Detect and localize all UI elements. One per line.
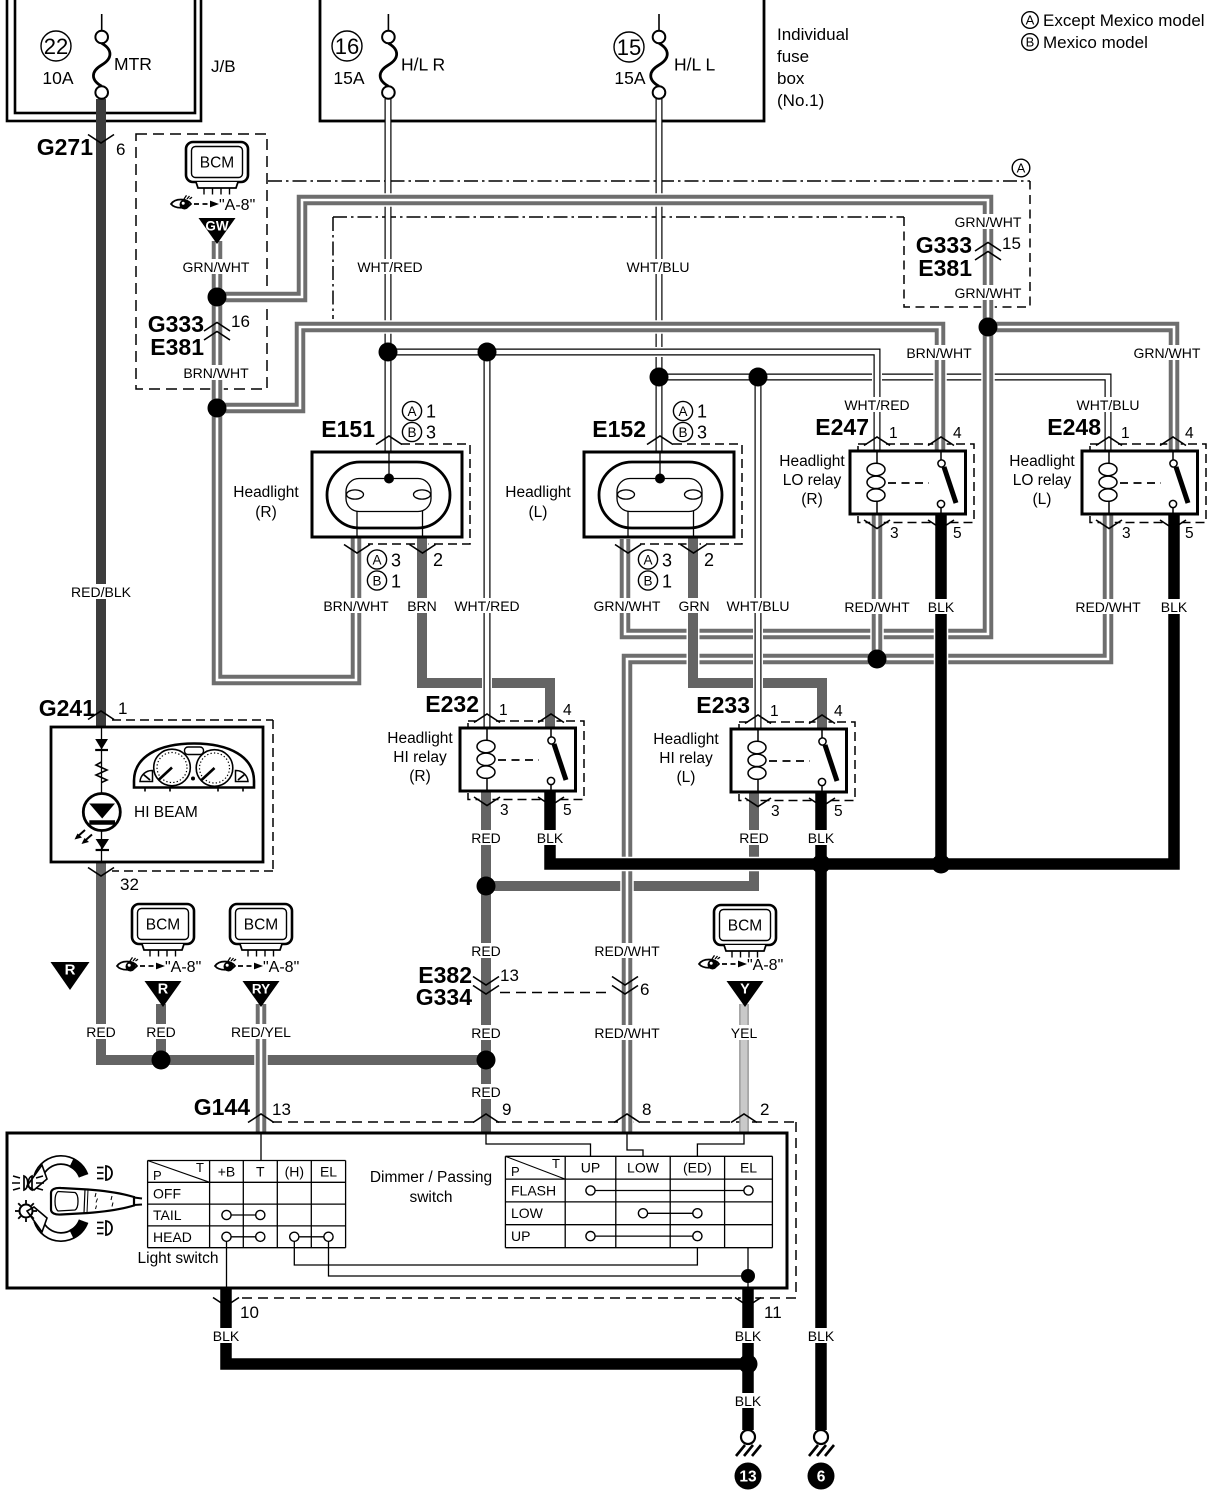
label RED/WHT under E247 <box>844 599 910 615</box>
svg-text:B: B <box>643 573 652 588</box>
svg-text:4: 4 <box>834 703 843 720</box>
svg-text:(H): (H) <box>285 1164 304 1180</box>
label J/B <box>211 57 236 76</box>
light switch assembly box <box>7 1133 787 1288</box>
label BRN under E151 <box>407 598 437 614</box>
svg-text:13: 13 <box>272 1100 291 1119</box>
connector E382/G334 pin 6 <box>612 977 649 1000</box>
svg-text:Headlight: Headlight <box>387 730 453 747</box>
svg-text:2: 2 <box>433 550 443 570</box>
svg-text:10A: 10A <box>42 68 73 88</box>
svg-text:3: 3 <box>391 551 401 571</box>
svg-text:WHT/BLU: WHT/BLU <box>627 259 690 275</box>
svg-text:RED/WHT: RED/WHT <box>594 943 660 959</box>
connector G333/E381 dashed box (right) <box>904 181 1030 307</box>
BCM RY reference A-8 eye <box>215 957 299 976</box>
svg-text:BLK: BLK <box>537 830 564 846</box>
label GRN under E152 <box>678 598 709 614</box>
svg-text:3: 3 <box>662 551 672 571</box>
G241 instrument cluster box <box>51 727 263 862</box>
svg-text:6: 6 <box>116 140 125 159</box>
relay E233 pin 5 <box>809 798 843 820</box>
connector G333/E381 pin 15 <box>916 232 1021 281</box>
label A circle on dash-dot box <box>1012 159 1030 177</box>
label RED/BLK <box>71 584 132 600</box>
svg-text:G334: G334 <box>416 984 472 1010</box>
light switch dashed connector box <box>238 1122 796 1298</box>
svg-text:HEAD: HEAD <box>153 1229 192 1245</box>
relay E233 title <box>653 731 719 786</box>
junction BRN/WHT below G333/E381 <box>208 399 227 418</box>
svg-text:8: 8 <box>642 1100 651 1119</box>
svg-text:B: B <box>372 573 381 588</box>
svg-text:16: 16 <box>231 312 250 331</box>
svg-text:EL: EL <box>320 1164 337 1180</box>
svg-text:BLK: BLK <box>735 1328 762 1344</box>
label WHT/RED fuse wire <box>357 259 422 275</box>
wire GRN/WHT from BCM gateway GW down <box>210 241 224 408</box>
legend B Mexico model <box>1022 33 1148 52</box>
label RED below E382 connector <box>471 1025 501 1041</box>
svg-text:R: R <box>65 962 76 979</box>
svg-text:GRN/WHT: GRN/WHT <box>955 285 1022 301</box>
wire RED from relay E232 pin 3 down through E382/G334 pin 13 to switch pin 9 <box>480 791 493 1133</box>
individual fuse box No.1 <box>320 0 764 121</box>
junction RED at relay E232 pin 3 <box>477 877 496 896</box>
svg-text:A: A <box>1017 161 1026 176</box>
label GRN/WHT below G333/E381 right <box>955 285 1022 301</box>
label WHT/BLU at E248 pin 1 <box>1077 397 1140 413</box>
relay E248 dashed connector box <box>1090 444 1206 523</box>
svg-text:Mexico model: Mexico model <box>1043 33 1148 52</box>
relay E232 pin 3 <box>474 797 509 819</box>
dimmer switch contact table <box>505 1156 772 1247</box>
triangle Y <box>727 981 764 1007</box>
svg-text:(ED): (ED) <box>683 1160 712 1176</box>
svg-text:4: 4 <box>563 702 572 719</box>
relay E232 title <box>387 730 453 785</box>
svg-text:WHT/RED: WHT/RED <box>454 598 519 614</box>
svg-text:E248: E248 <box>1047 414 1101 440</box>
svg-text:BLK: BLK <box>213 1328 240 1344</box>
junction RED at BCM R wire <box>152 1051 171 1070</box>
svg-text:E381: E381 <box>918 255 972 281</box>
svg-text:15A: 15A <box>333 68 364 88</box>
svg-text:5: 5 <box>563 802 572 819</box>
wire RED/WHT from relay E247 pin 3 to junction <box>870 515 884 659</box>
junction BLK at dimmer pin 11 wire <box>739 1355 758 1374</box>
svg-text:(R): (R) <box>801 491 823 508</box>
svg-text:A: A <box>372 552 381 567</box>
wire GRN from headlight E152 pin 2 to relay E233 pin 4 <box>693 537 822 729</box>
label individual fuse box <box>777 25 849 110</box>
label BLK ground 6 wire <box>808 1328 835 1344</box>
svg-text:3: 3 <box>890 525 899 542</box>
wire RED/WHT from relays E247/E248 pin 3 down through E382/G334 pin 6 to switch pin 8 <box>627 515 1108 1133</box>
svg-text:FLASH: FLASH <box>511 1182 556 1198</box>
svg-text:BCM: BCM <box>728 918 762 935</box>
svg-text:RED: RED <box>739 830 769 846</box>
svg-text:Y: Y <box>740 982 750 998</box>
svg-text:UP: UP <box>511 1228 530 1244</box>
switch pin 2 <box>731 1100 769 1123</box>
svg-text:2: 2 <box>760 1100 769 1119</box>
svg-text:E247: E247 <box>815 414 869 440</box>
svg-text:HI relay: HI relay <box>393 749 447 766</box>
wire GRN/WHT from BCM junction via G333/E381 pin 15 <box>217 200 988 327</box>
svg-text:HI BEAM: HI BEAM <box>134 804 198 821</box>
svg-text:16: 16 <box>335 34 359 59</box>
wire BRN/WHT from junction to relay E247 pin 4 <box>217 327 940 451</box>
BCM module R <box>132 904 194 957</box>
label GRN/WHT above G333/E381 right <box>955 214 1022 230</box>
svg-text:RED: RED <box>471 1025 501 1041</box>
svg-text:(R): (R) <box>255 504 277 521</box>
svg-text:A: A <box>1026 13 1035 28</box>
G241 connector pin 1 <box>39 695 128 721</box>
instrument cluster gauge icon <box>134 744 254 792</box>
svg-text:3: 3 <box>697 423 707 443</box>
switch pin 10 <box>213 1298 259 1323</box>
label Headlight (L) <box>505 484 571 521</box>
svg-text:H/L L: H/L L <box>674 55 715 75</box>
svg-text:BLK: BLK <box>808 1328 835 1344</box>
relay E232 pin 5 <box>538 797 572 819</box>
relay E248 label <box>1047 414 1101 440</box>
svg-text:10: 10 <box>240 1303 259 1322</box>
BCM R reference A-8 eye <box>117 957 201 976</box>
svg-text:1: 1 <box>426 402 436 422</box>
svg-text:3: 3 <box>771 803 780 820</box>
wire GRN/WHT from junction to relay E248 pin 4 <box>988 327 1174 451</box>
svg-text:GRN/WHT: GRN/WHT <box>183 259 250 275</box>
wire YEL from BCM Y triangle to switch pin 2 <box>739 1004 749 1133</box>
relay E233 pin 1 <box>745 703 779 724</box>
svg-text:1: 1 <box>391 572 401 592</box>
svg-text:6: 6 <box>640 980 649 999</box>
svg-text:BRN/WHT: BRN/WHT <box>183 365 249 381</box>
svg-text:1: 1 <box>662 572 672 592</box>
svg-text:(No.1): (No.1) <box>777 91 824 110</box>
svg-text:Individual: Individual <box>777 25 849 44</box>
label GRN/WHT at GW wire <box>183 259 250 275</box>
label HI BEAM <box>134 804 198 821</box>
svg-text:A: A <box>407 404 416 419</box>
wire RED from relay E233 pin 3 to junction <box>486 791 754 886</box>
svg-text:P: P <box>511 1164 520 1179</box>
svg-text:P: P <box>153 1168 162 1183</box>
wire RED from BCM R triangle to bus <box>155 1004 168 1060</box>
BCM Y reference A-8 eye <box>699 955 783 974</box>
relay E247 pin 3 <box>864 520 899 542</box>
svg-text:LO relay: LO relay <box>1013 472 1072 489</box>
svg-text:RED/WHT: RED/WHT <box>594 1025 660 1041</box>
svg-text:(L): (L) <box>677 769 696 786</box>
svg-text:T: T <box>552 1156 560 1171</box>
relay E233 pin 4 <box>809 703 843 724</box>
relay E247 <box>850 451 966 514</box>
label BLK pin 10 <box>213 1328 240 1344</box>
wire WHT/BLU branch to relay E248 pin 1 <box>659 377 1108 451</box>
dimmer table headers <box>511 1156 757 1244</box>
connector G144 pin 13 <box>194 1094 291 1123</box>
wire RED from G241 pin 32 along bus to junction <box>101 862 486 1060</box>
BCM reference A-8 eye <box>171 195 255 214</box>
label BLK under E233 <box>808 830 835 846</box>
light switch TAIL contacts <box>222 1210 265 1219</box>
svg-text:6: 6 <box>817 1469 826 1486</box>
label RED/WHT under E248 <box>1075 599 1141 615</box>
wire BLK relay E247 pin 5 to ground bus <box>934 515 949 864</box>
relay E232 <box>460 728 576 791</box>
relay E247 pin 4 <box>928 425 962 446</box>
svg-text:BLK: BLK <box>735 1393 762 1409</box>
wire BLK relay E233 pin 5 down to ground 6 <box>814 792 829 1430</box>
label BLK below junction <box>735 1393 762 1409</box>
relay E247 label <box>815 414 869 440</box>
junction BLK at relay E233 pin 5 <box>812 855 831 874</box>
relay E247 pin 1 <box>864 425 898 446</box>
svg-text:1: 1 <box>1121 425 1130 442</box>
label BLK under E248 <box>1161 599 1188 615</box>
junction WHT/RED at E232 branch <box>478 343 497 362</box>
svg-text:(R): (R) <box>409 768 431 785</box>
svg-text:G144: G144 <box>194 1094 250 1120</box>
svg-text:RED/BLK: RED/BLK <box>71 584 132 600</box>
headlight E151 top pin A1/B3 <box>376 401 436 444</box>
fuse 22 10A MTR <box>41 14 152 99</box>
junction WHT/BLU at fuse branch <box>650 368 669 387</box>
svg-text:15A: 15A <box>614 68 645 88</box>
G241 dashed connector box <box>112 720 273 871</box>
svg-text:5: 5 <box>953 525 962 542</box>
wire WHT/BLU from fuse 15 down to headlight E152 pin A1/B3 <box>656 99 663 452</box>
svg-text:BRN/WHT: BRN/WHT <box>906 345 972 361</box>
triangle RY <box>243 981 280 1007</box>
svg-text:4: 4 <box>953 425 962 442</box>
svg-text:BCM: BCM <box>244 917 278 934</box>
switch pin 11 <box>735 1298 782 1323</box>
label BRN/WHT below G333/E381 <box>183 365 249 381</box>
svg-text:J/B: J/B <box>211 57 236 76</box>
wire BLK ground bus from relay E232 pin 5 to relay E248 pin 5 <box>550 515 1174 864</box>
relay E233 dashed connector box <box>739 722 855 801</box>
svg-text:3: 3 <box>500 802 509 819</box>
label RED on BCM R wire <box>146 1024 176 1040</box>
svg-text:5: 5 <box>834 803 843 820</box>
relay E248 pin 5 <box>1160 520 1194 542</box>
label GRN/WHT under E152 <box>594 598 661 614</box>
svg-text:LOW: LOW <box>511 1205 544 1221</box>
model-A region dash-dot boundary <box>268 181 1030 319</box>
svg-text:3: 3 <box>426 423 436 443</box>
svg-text:HI relay: HI relay <box>659 750 713 767</box>
svg-text:Headlight: Headlight <box>1009 453 1075 470</box>
gateway triangle GW <box>199 218 236 244</box>
junction RED/WHT at relay E247 pin 3 <box>868 650 887 669</box>
svg-text:WHT/BLU: WHT/BLU <box>1077 397 1140 413</box>
headlight E152 bottom pin A3/B1 <box>615 545 672 592</box>
BCM module top <box>186 142 248 195</box>
svg-text:LOW: LOW <box>627 1160 660 1176</box>
junction WHT/BLU at E233 branch <box>749 368 768 387</box>
label RED/WHT above E382 connector <box>594 943 660 959</box>
svg-text:Light switch: Light switch <box>138 1250 219 1267</box>
svg-text:box: box <box>777 69 805 88</box>
svg-text:G271: G271 <box>37 134 93 160</box>
label WHT/BLU fuse wire <box>627 259 690 275</box>
label RED under E233 <box>739 830 769 846</box>
svg-text:5: 5 <box>1185 525 1194 542</box>
label Dimmer / Passing switch <box>370 1169 492 1206</box>
relay E232 label <box>425 691 479 717</box>
svg-text:Headlight: Headlight <box>653 731 719 748</box>
label BRN/WHT under E151 <box>323 598 389 614</box>
switch internal wiring <box>227 1133 749 1288</box>
light switch stalk icon <box>27 1160 142 1237</box>
svg-text:Headlight: Headlight <box>779 453 845 470</box>
junction WHT/RED at fuse branch <box>379 343 398 362</box>
junction inside switch <box>741 1269 755 1283</box>
headlight E151 bottom pin 2 <box>410 545 444 571</box>
svg-text:B: B <box>407 425 416 440</box>
label BLK pin 11 <box>735 1328 762 1344</box>
headlight E151 bottom pin A3/B1 <box>344 545 401 592</box>
headlight E152 bottom pin 2 <box>681 545 715 571</box>
svg-text:13: 13 <box>739 1469 757 1486</box>
junction GRN/WHT below G333/E381 right <box>979 318 998 337</box>
svg-text:GRN/WHT: GRN/WHT <box>955 214 1022 230</box>
svg-text:Headlight: Headlight <box>233 484 299 501</box>
svg-text:4: 4 <box>1185 425 1194 442</box>
wire BRN from headlight E151 pin 2 to relay E232 pin 4 <box>422 537 550 728</box>
relay E248 pin 3 <box>1096 520 1131 542</box>
svg-text:11: 11 <box>764 1303 782 1322</box>
svg-text:GRN/WHT: GRN/WHT <box>594 598 661 614</box>
svg-text:E381: E381 <box>150 334 204 360</box>
wire BLK dimmer switch pin 11 down to ground 13 <box>741 1288 756 1430</box>
svg-text:+B: +B <box>218 1164 236 1180</box>
svg-text:RED/WHT: RED/WHT <box>1075 599 1141 615</box>
svg-text:E152: E152 <box>592 416 646 442</box>
label RED above switch pin 9 <box>471 1084 501 1100</box>
diode D1 in G241 <box>95 739 108 750</box>
wire BLK light switch pin 10 to junction <box>226 1288 748 1364</box>
svg-text:"A-8": "A-8" <box>263 959 299 976</box>
relay E247 pin 5 <box>928 520 962 542</box>
svg-text:G241: G241 <box>39 695 95 721</box>
svg-text:BRN: BRN <box>407 598 437 614</box>
fuse 15 15A H/L L <box>614 14 715 99</box>
label BRN/WHT at E247 pin 4 <box>906 345 972 361</box>
svg-text:T: T <box>196 1160 204 1175</box>
svg-text:WHT/BLU: WHT/BLU <box>727 598 790 614</box>
svg-text:A: A <box>678 404 687 419</box>
label RED under E232 <box>471 830 501 846</box>
svg-text:1: 1 <box>889 425 898 442</box>
relay E248 title <box>1009 453 1075 508</box>
label BLK under E247 <box>928 599 955 615</box>
parking lamp symbol <box>12 1176 44 1190</box>
svg-text:UP: UP <box>581 1160 600 1176</box>
svg-text:(L): (L) <box>529 504 548 521</box>
relay E247 dashed connector box <box>858 444 974 523</box>
svg-text:3: 3 <box>1122 525 1131 542</box>
svg-text:Dimmer / Passing: Dimmer / Passing <box>370 1169 492 1186</box>
junction GRN/WHT at BCM <box>208 288 227 307</box>
wire WHT/BLU branch down to relay E233 pin 1 <box>753 377 763 729</box>
relay E232 pin 4 <box>538 702 572 723</box>
wire WHT/RED branch down to relay E232 pin 1 <box>482 352 492 728</box>
fuse 16 15A H/L R <box>332 14 445 99</box>
label RED on G241 wire <box>86 1024 116 1040</box>
svg-text:"A-8": "A-8" <box>747 957 783 974</box>
svg-text:YEL: YEL <box>731 1025 758 1041</box>
connector G271 pin 6 <box>37 134 126 160</box>
svg-text:RY: RY <box>252 982 270 997</box>
dimmer UP contacts <box>586 1232 702 1241</box>
label GRN/WHT at E248 pin 4 <box>1134 345 1201 361</box>
svg-text:GW: GW <box>205 219 229 234</box>
svg-text:RED: RED <box>471 1084 501 1100</box>
relay E232 dashed connector box <box>468 721 584 800</box>
G241 internal series line <box>101 727 103 862</box>
headlight E151 (R) <box>312 452 462 537</box>
junction BLK at relay E247 pin 5 <box>932 855 951 874</box>
label WHT/RED under E151 <box>454 598 519 614</box>
relay E247 title <box>779 453 845 508</box>
svg-text:BLK: BLK <box>1161 599 1188 615</box>
high beam symbol <box>97 1166 112 1180</box>
svg-text:Headlight: Headlight <box>505 484 571 501</box>
light switch HEAD contacts +B/T <box>222 1232 265 1241</box>
dimmer FLASH contacts <box>586 1186 753 1195</box>
switch pin 9 <box>473 1100 511 1123</box>
svg-text:RED/YEL: RED/YEL <box>231 1024 291 1040</box>
svg-text:1: 1 <box>118 699 127 718</box>
svg-text:E233: E233 <box>696 692 750 718</box>
sun symbol <box>15 1200 37 1222</box>
svg-text:E151: E151 <box>321 416 375 442</box>
relay E233 <box>731 729 847 792</box>
relay E233 pin 3 <box>745 798 780 820</box>
svg-text:22: 22 <box>44 34 68 59</box>
svg-text:2: 2 <box>704 550 714 570</box>
BCM module Y <box>714 905 776 958</box>
dimmer LOW contacts <box>638 1209 702 1218</box>
switch pin 8 <box>614 1100 651 1123</box>
svg-text:BLK: BLK <box>808 830 835 846</box>
label RED above E382 connector <box>471 943 501 959</box>
svg-text:fuse: fuse <box>777 47 809 66</box>
svg-text:T: T <box>256 1164 265 1180</box>
svg-text:RED/WHT: RED/WHT <box>844 599 910 615</box>
headlight E152 dashed connector box <box>640 444 742 544</box>
BCM connector dashed box (left) <box>136 134 267 389</box>
svg-text:WHT/RED: WHT/RED <box>844 397 909 413</box>
light switch HEAD contacts (H)/EL <box>290 1232 333 1241</box>
relay E248 <box>1082 451 1198 514</box>
BCM module RY <box>230 904 292 957</box>
svg-text:MTR: MTR <box>114 54 152 74</box>
svg-text:B: B <box>1026 35 1035 50</box>
svg-text:B: B <box>678 425 687 440</box>
triangle R <box>145 981 182 1007</box>
floating triangle R <box>51 962 90 991</box>
svg-text:1: 1 <box>499 702 508 719</box>
label BLK under E232 <box>537 830 564 846</box>
wire WHT/RED branch to relay E247 pin 1 <box>388 352 877 451</box>
